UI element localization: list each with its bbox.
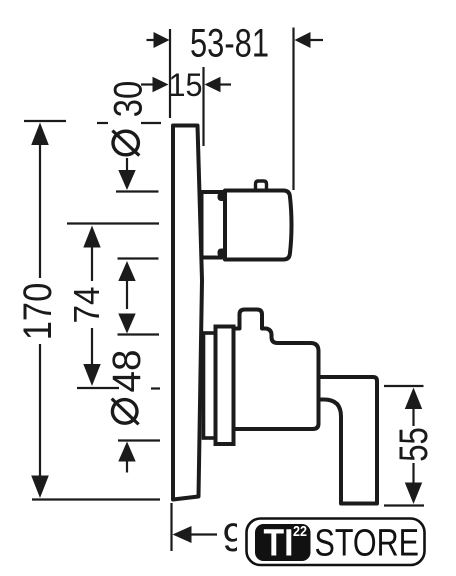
svg-text:170: 170 [16, 283, 60, 341]
dim 55 : top tick [384, 385, 424, 387]
TI STORE logo [247, 519, 425, 566]
svg-text:30: 30 [107, 81, 151, 118]
dim 53-81 : extension line right [292, 28, 294, 191]
dim 74 : top arrow [83, 226, 100, 248]
dim 74 : bottom arrow [91, 328, 93, 368]
dim 170 : top arrow [31, 123, 49, 146]
dim diam48 : upper arrow (down) [118, 314, 135, 334]
bottom dim : extension line [170, 503, 172, 551]
dim 55 : bottom tick [384, 504, 424, 506]
thermostat knob [225, 191, 292, 260]
spout [319, 377, 378, 504]
top button on thermostat knob [256, 181, 267, 192]
dim 170 : bottom arrow [39, 344, 41, 479]
dim 15 : right arrow [220, 83, 231, 85]
label diam 48 : diameter symbol [112, 399, 139, 425]
label diam 30 : diameter symbol [112, 131, 139, 156]
bottom dim : left arrow [173, 526, 192, 543]
dim diam48 : lower tick [118, 439, 160, 441]
lower escutcheon disc 2 [216, 327, 234, 445]
dim diam30 : stem below text [126, 158, 128, 175]
dim diam30 : upper arrow (down) [118, 170, 135, 190]
lower valve body with cap [234, 310, 319, 430]
svg-text:22: 22 [293, 523, 307, 540]
svg-text:55: 55 [392, 427, 436, 462]
dim 55 : top arrow [405, 388, 422, 410]
dim 53-81 : right arrow [309, 39, 323, 41]
wall plate [173, 126, 202, 500]
svg-text:74: 74 [66, 287, 107, 324]
dim 15 : extension line right [202, 67, 204, 146]
white mask under logo [237, 509, 456, 576]
svg-text:15: 15 [169, 67, 203, 103]
adapter shoulder nub top [218, 193, 227, 202]
lower escutcheon disc 1 [204, 333, 216, 438]
dim 15 : left arrow [141, 83, 154, 85]
adapter shoulder nub bottom [218, 249, 227, 258]
dim 55 : bottom arrow [412, 463, 414, 486]
svg-text:TI: TI [264, 523, 294, 565]
dim diam48 : upper tick [118, 333, 160, 335]
dim 53-81 : extension line left [169, 29, 171, 118]
dim 170 : top tick [24, 120, 66, 122]
dim 74 : top tick [67, 222, 159, 224]
dim 74 : bottom tick segments [77, 387, 119, 389]
logo outer frame [247, 519, 425, 566]
dim diam30 : upper tick (knob top) [116, 190, 159, 192]
dim diam30 : lower arrow (up) [118, 261, 135, 281]
svg-text:STORE: STORE [315, 523, 420, 565]
svg-text:53-81: 53-81 [190, 22, 269, 66]
dim diam30 : lower tick (knob bottom) [118, 257, 159, 259]
dim diam48 : lower arrow (up) [118, 442, 135, 462]
handle adapter sleeve (top knob) [202, 192, 226, 258]
svg-text:48: 48 [105, 350, 149, 393]
logo TI black tile [255, 524, 311, 561]
dim 53-81 : left arrow [147, 39, 156, 41]
dim 170 : bottom tick [32, 498, 160, 500]
dim 170 : top extension segments toward plate [97, 122, 108, 124]
